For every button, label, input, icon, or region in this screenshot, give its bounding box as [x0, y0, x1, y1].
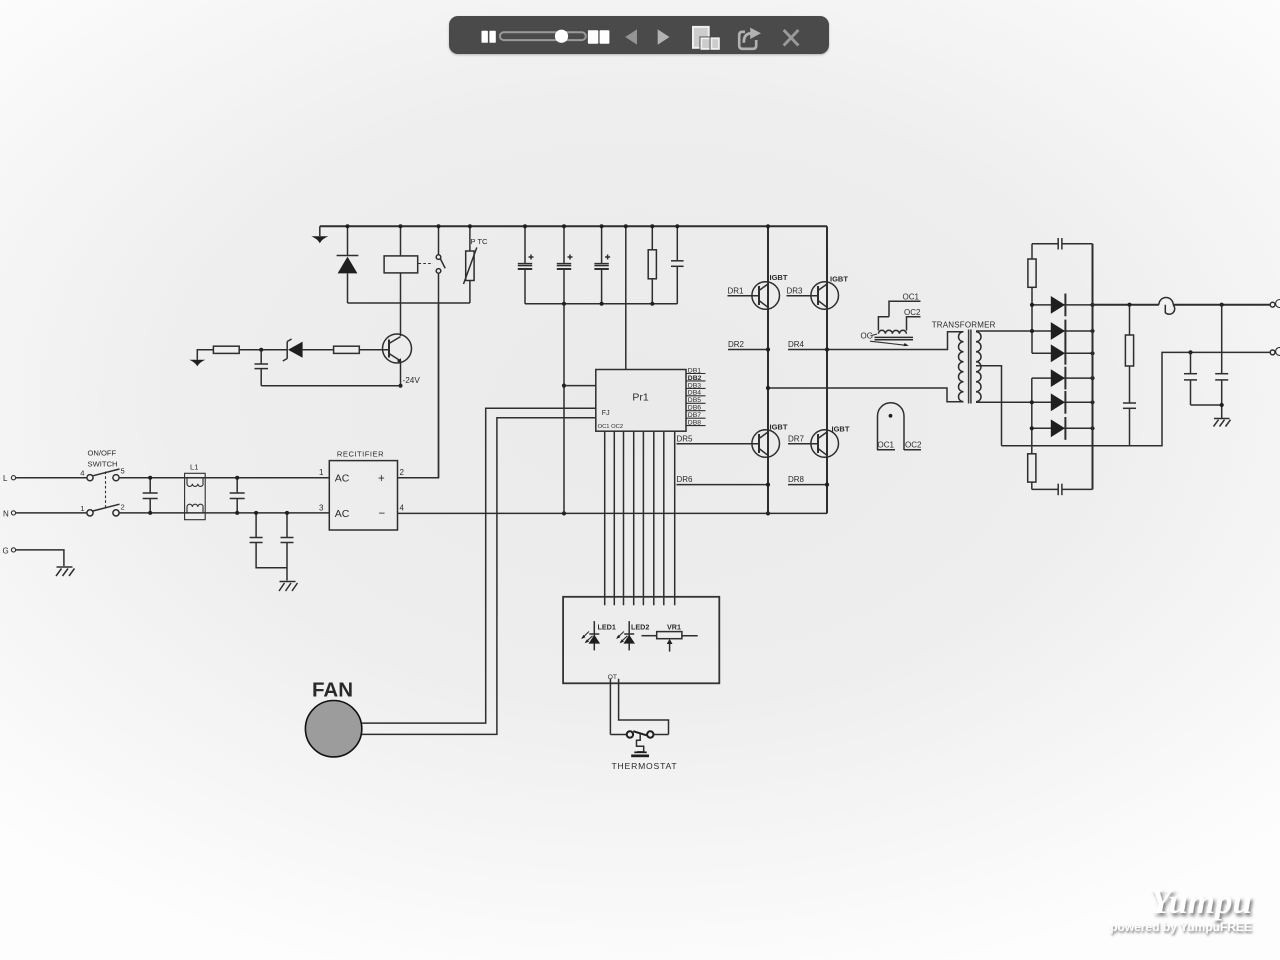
capacitor C5 (base node to -24V)	[255, 350, 269, 386]
output inductor L2	[1159, 298, 1175, 315]
svg-text:5: 5	[121, 467, 125, 476]
svg-text:DB5: DB5	[688, 397, 701, 404]
svg-text:1: 1	[319, 468, 324, 477]
svg-text:IGBT: IGBT	[770, 273, 788, 282]
output plus wire	[1093, 304, 1159, 306]
ground at top rail left	[311, 226, 328, 243]
junction row6 left	[1030, 426, 1034, 430]
snubber top wire with capacitor C10	[1032, 238, 1093, 250]
bridge mid rail to transformer	[768, 388, 964, 402]
secondary bottom wire	[976, 401, 1032, 403]
diode D1 (across inrush contact)	[337, 226, 359, 303]
svg-text:DB2: DB2	[688, 375, 702, 382]
resistor R1 (to ground)	[213, 346, 239, 353]
svg-text:VR1: VR1	[667, 623, 681, 632]
snubber capacitor C9	[671, 226, 684, 303]
overcurrent CT sense wire OC1	[889, 293, 921, 317]
junction R3 top	[650, 224, 654, 228]
svg-text:DR1: DR1	[728, 287, 745, 296]
junction C2 bottom	[235, 511, 239, 515]
Pr1 pin stub DB8	[686, 420, 706, 427]
toolbar close icon	[784, 30, 799, 46]
svg-text:2: 2	[121, 502, 125, 511]
IGBT Q3 (upper right)	[811, 275, 848, 310]
svg-text:DR3: DR3	[787, 287, 804, 296]
EMI capacitor C14	[1215, 305, 1228, 418]
svg-text:OC2: OC2	[905, 441, 922, 450]
secondary top wire	[976, 330, 1032, 332]
toolbar pages icon	[693, 27, 719, 49]
junction bottom rail C8	[600, 302, 604, 306]
output plus wire after inductor	[1173, 304, 1270, 306]
wire -24V rail	[261, 385, 400, 387]
wire G to ground	[16, 550, 64, 566]
Pr1 drive wire 8	[674, 431, 676, 605]
relay contact	[436, 226, 445, 477]
potentiometer VR1	[642, 623, 698, 652]
control IC Pr1	[596, 370, 686, 432]
output stack left-top vertical	[1031, 244, 1033, 354]
Pr1 pin stub DB4	[686, 390, 706, 397]
filter resistor R6	[1125, 305, 1133, 403]
Pr1 drive wire 5	[642, 431, 644, 605]
junction EMI ground	[1220, 403, 1224, 407]
toolbar zoom slider knob	[555, 30, 568, 43]
LED display board	[563, 597, 719, 684]
junction C4 top	[285, 511, 289, 515]
junction DR6	[766, 483, 770, 487]
transformer T1	[932, 320, 996, 403]
emitter wire DR2	[728, 340, 768, 349]
junction mid rail	[766, 386, 770, 390]
svg-text:2: 2	[400, 468, 405, 477]
switch S1 ON/OFF	[80, 449, 124, 517]
svg-text:L: L	[3, 474, 8, 483]
svg-text:AC: AC	[335, 473, 350, 485]
thermal protector dome	[877, 403, 922, 450]
junction C9 top	[675, 224, 679, 228]
PTC thermistor	[464, 226, 489, 303]
svg-text:IGBT: IGBT	[770, 423, 788, 432]
junction row2 left	[1030, 329, 1034, 333]
gate wire DR3	[787, 287, 819, 296]
EMI cap bottom wire	[1191, 404, 1222, 406]
junction C2 top	[235, 476, 239, 480]
EMI capacitor C13	[1184, 352, 1197, 405]
junction left leg top	[766, 224, 770, 228]
thermostat	[610, 731, 677, 771]
svg-text:OC2: OC2	[904, 308, 921, 317]
output stack left-bottom vertical	[1031, 378, 1033, 489]
toolbar previous page arrow	[625, 29, 637, 44]
svg-text:FJ: FJ	[602, 410, 610, 417]
svg-text:OC1: OC1	[878, 441, 895, 450]
LED1	[581, 621, 616, 650]
Pr1 FJ pin wire upper to fan	[361, 408, 596, 723]
junction output plus to EMI cap	[1220, 303, 1224, 307]
output terminal plus	[1270, 300, 1280, 308]
wire switch to rectifier bottom (N line)	[119, 512, 329, 514]
junction relay top	[399, 224, 403, 228]
junction DR2	[766, 347, 770, 351]
transistor Q1 (relay driver)	[383, 334, 412, 386]
junction PTC top	[468, 224, 472, 228]
svg-text:THERMOSTAT: THERMOSTAT	[612, 761, 678, 771]
Pr1 pin stub DB3	[686, 382, 706, 389]
Pr1 pin stub DB6	[686, 405, 706, 412]
svg-text:3: 3	[319, 503, 324, 512]
output stack right vertical	[1092, 244, 1094, 490]
output terminal minus	[1270, 347, 1280, 355]
Pr1 drive wire 1	[604, 431, 606, 605]
junction emitter node	[399, 384, 403, 388]
IGBT bridge left leg wire	[767, 226, 769, 513]
ground output	[1214, 419, 1231, 427]
svg-text:DB3: DB3	[688, 382, 701, 389]
rectifier diode D4 (row3)	[1032, 342, 1093, 365]
svg-text:RECITIFIER: RECITIFIER	[337, 449, 384, 458]
junction Pr1 feed at top rail	[624, 224, 628, 228]
rectifier diode D5 (row4)	[1032, 367, 1093, 390]
svg-text:N: N	[3, 509, 9, 518]
emitter wire DR8	[788, 475, 827, 484]
svg-text:L1: L1	[190, 463, 198, 472]
svg-text:DR7: DR7	[788, 435, 805, 444]
Pr1 drive wire 7	[663, 431, 665, 605]
junction contact top	[437, 224, 441, 228]
capacitor C1 (X-cap before choke)	[143, 478, 158, 513]
wire inrush bottom node	[348, 302, 470, 304]
svg-text:DB7: DB7	[688, 412, 701, 419]
OT wire left	[609, 679, 611, 735]
IGBT bridge right leg wire	[826, 226, 828, 513]
IGBT Q5 (lower right)	[811, 425, 850, 458]
dashed mechanical link relay to contact	[419, 263, 434, 265]
relay coil K1	[384, 226, 418, 336]
svg-text:DB4: DB4	[688, 390, 701, 397]
Pr1 drive wire 2	[613, 431, 615, 605]
junction output minus caps	[1188, 350, 1192, 354]
fan motor M1	[305, 679, 361, 757]
svg-text:G: G	[3, 546, 9, 555]
rectifier diode D7 (row6)	[1032, 417, 1093, 440]
junction row4 right	[1090, 376, 1094, 380]
resistor R2 (base resistor)	[334, 346, 360, 353]
emitter wire DR4 to transformer	[788, 332, 964, 350]
capacitor C3 (Y-cap left)	[250, 513, 287, 568]
rectifier diode D3 (row2)	[1032, 320, 1093, 343]
junction C1 bottom	[148, 511, 152, 515]
junction DR4	[825, 347, 829, 351]
gate wire DR5	[677, 435, 760, 444]
overcurrent CT coil OG	[861, 317, 914, 346]
junction row6 right	[1090, 426, 1094, 430]
svg-text:+: +	[378, 473, 385, 485]
svg-text:OG: OG	[861, 332, 873, 341]
wire N to switch	[16, 512, 87, 514]
junction C3 top	[254, 511, 258, 515]
junction Pr1 left feed	[562, 384, 566, 388]
wire R1 to node	[239, 349, 287, 351]
wire L to switch	[16, 477, 87, 479]
Pr1 drive wire 6	[653, 431, 655, 605]
svg-text:4: 4	[80, 469, 84, 478]
terminal N	[3, 509, 16, 518]
svg-text:P TC: P TC	[471, 237, 489, 246]
wire DC minus riser	[563, 304, 565, 514]
junction R3 bottom	[650, 302, 654, 306]
Pr1 pin stub DB7	[686, 412, 706, 419]
wire rectifier pin2 up	[398, 303, 439, 478]
svg-text:DB8: DB8	[688, 420, 701, 427]
junction row5 left	[1030, 400, 1034, 404]
svg-text:DR6: DR6	[677, 475, 694, 484]
terminal L	[3, 474, 16, 483]
junction bottom rail C7	[562, 302, 566, 306]
svg-text:DR4: DR4	[788, 340, 805, 349]
junction row1 left	[1030, 303, 1034, 307]
svg-text:DB6: DB6	[688, 405, 701, 412]
svg-text:DR2: DR2	[728, 340, 745, 349]
junction row3 right	[1090, 351, 1094, 355]
svg-text:LED1: LED1	[598, 623, 616, 632]
choke L1	[185, 463, 206, 520]
bleeder resistor R3	[648, 226, 656, 303]
ground G2 (base network)	[189, 350, 213, 367]
wire switch to rectifier top (L line)	[119, 477, 329, 479]
junction DC minus at IGBT leg	[766, 511, 770, 515]
emitter wire DR6	[677, 475, 769, 484]
toolbar next page arrow	[658, 29, 670, 44]
OT wire right	[619, 679, 669, 735]
junction output filter R	[1127, 303, 1131, 307]
IGBT Q2 (upper left)	[752, 273, 788, 309]
svg-text:DB1: DB1	[688, 367, 701, 374]
ground below Y-caps	[279, 582, 298, 592]
rectifier BR1	[319, 449, 404, 530]
junction C7 top	[562, 224, 566, 228]
svg-text:4: 4	[400, 503, 405, 512]
Pr1 pin stub DB2	[686, 375, 706, 382]
junction row1 right	[1090, 303, 1094, 307]
rectifier diode D2 (row1)	[1032, 294, 1093, 317]
overcurrent CT sense wire OC2	[904, 308, 921, 331]
junction DC minus at cap leg	[562, 511, 566, 515]
bulk capacitor C8	[594, 226, 610, 303]
snubber resistor R5 (bottom)	[1028, 454, 1036, 482]
junction DR8	[825, 483, 829, 487]
svg-text:AC: AC	[335, 508, 350, 520]
Pr1 drive wire 4	[633, 431, 635, 605]
wire R2 to base	[359, 349, 389, 351]
svg-text:IGBT: IGBT	[830, 275, 848, 284]
snubber resistor R4 (top)	[1028, 259, 1036, 287]
svg-text:-24V: -24V	[403, 376, 421, 385]
toolbar zoom-out icon	[482, 31, 496, 43]
Pr1 drive wire 3	[623, 431, 625, 605]
LED2	[616, 621, 649, 650]
snubber bottom wire with capacitor C11	[1032, 484, 1093, 496]
svg-text:LED2: LED2	[631, 623, 649, 632]
svg-text:OC1 OC2: OC1 OC2	[598, 424, 623, 430]
svg-text:DR8: DR8	[788, 475, 805, 484]
svg-text:−: −	[379, 508, 386, 520]
rectifier diode D6 (row5)	[1032, 391, 1093, 414]
capacitor C2 (X-cap after choke)	[230, 478, 245, 513]
bulk capacitor C7	[557, 226, 573, 303]
svg-text:OT: OT	[608, 674, 617, 681]
Pr1 pin stub DB5	[686, 397, 706, 404]
svg-text:SWITCH: SWITCH	[88, 460, 118, 469]
Pr1 FJ pin wire lower to fan	[361, 418, 596, 735]
gate wire DR1	[728, 287, 760, 296]
junction base node	[259, 348, 263, 352]
svg-text:ON/OFF: ON/OFF	[88, 449, 117, 458]
bulk capacitor C6	[518, 226, 534, 303]
IGBT Q4 (lower left)	[752, 423, 788, 458]
capacitor C4 (Y-cap right)	[281, 513, 294, 581]
Pr1 pin stub DB1	[686, 367, 706, 374]
terminal G	[3, 546, 16, 555]
junction C6 top	[523, 224, 527, 228]
top DC plus rail	[320, 225, 827, 227]
zener diode ZD1	[283, 339, 334, 361]
junction D1 top	[346, 224, 350, 228]
junction C8 top	[600, 224, 604, 228]
svg-text:DR5: DR5	[677, 435, 694, 444]
junction row5 right	[1090, 400, 1094, 404]
svg-text:TRANSFORMER: TRANSFORMER	[932, 320, 996, 329]
svg-text:FAN: FAN	[312, 679, 353, 702]
svg-text:1: 1	[80, 504, 84, 513]
svg-text:Pr1: Pr1	[632, 392, 649, 404]
filter capacitor C12	[1123, 403, 1136, 446]
toolbar zoom-in icon	[588, 30, 609, 43]
secondary centre tap wire	[976, 366, 1002, 446]
toolbar share icon	[739, 28, 761, 49]
output return rail	[1002, 352, 1271, 445]
junction C1 top	[148, 476, 152, 480]
svg-text:OC1: OC1	[903, 293, 920, 302]
gate wire DR7	[788, 435, 818, 444]
junction row2 right	[1090, 329, 1094, 333]
ground for G	[56, 567, 75, 576]
wire to Pr1 left pin	[564, 385, 596, 387]
wire top rail to Pr1 top pin	[625, 226, 627, 369]
svg-text:IGBT: IGBT	[832, 425, 850, 434]
wire rectifier pin4 DC minus rail	[398, 512, 828, 514]
cap bank bottom rail	[525, 303, 677, 305]
toolbar zoom slider track	[500, 32, 586, 40]
